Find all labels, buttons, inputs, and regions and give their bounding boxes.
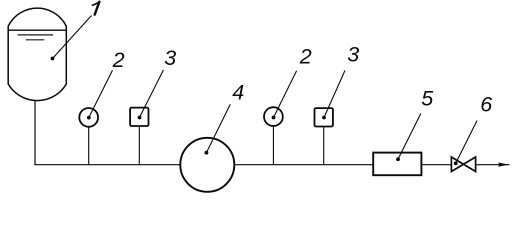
gauge 2 (right pressure gauge circle) [272, 126, 274, 164]
label 1 [92, 2, 100, 6]
leader dot 1 [51, 57, 55, 61]
svg-text:4: 4 [232, 81, 244, 105]
wire: tank outlet vertical pipe [34, 101, 36, 165]
filter 5 (rectangle) [373, 153, 421, 176]
tank level mark lower [26, 39, 45, 41]
leader line for right label 3 [324, 70, 345, 117]
leader line for label 1 [53, 16, 92, 59]
wire: outlet pipe with flow arrow [476, 164, 509, 166]
svg-text:2: 2 [299, 44, 312, 68]
leader line for label 4 [206, 104, 230, 153]
svg-text:6: 6 [480, 92, 492, 116]
gauge 2 (left pressure gauge circle) [88, 127, 90, 164]
tank level mark upper [18, 34, 54, 36]
leader dot left 2 [87, 116, 91, 120]
sensor 3 (right square instrument) [323, 127, 325, 165]
svg-text:3: 3 [347, 42, 359, 66]
valve 6 (bowtie symbol) [451, 157, 475, 172]
arrowhead flow direction [498, 163, 508, 167]
sensor 3 (left square instrument) [138, 127, 140, 165]
leader dot 6 [454, 161, 458, 165]
leader dot right 3 [322, 116, 326, 120]
svg-text:5: 5 [421, 86, 434, 110]
leader line for label 6 [456, 121, 477, 164]
leader line for left label 2 [89, 70, 113, 117]
svg-text:3: 3 [164, 46, 176, 70]
leader dot left 3 [138, 116, 142, 120]
leader line for label 5 [398, 113, 421, 159]
wire: main pipe tank to pump [34, 164, 179, 166]
wire: main pipe filter to valve [422, 164, 450, 166]
svg-text:2: 2 [112, 48, 125, 72]
tank liquid surface line [8, 29, 66, 31]
leader line for right label 2 [274, 71, 297, 118]
pump 4 (large circle) [180, 138, 234, 192]
wire: main pipe pump to filter [235, 164, 372, 166]
leader dot 4 [205, 151, 209, 155]
leader dot 5 [396, 157, 400, 161]
leader dot right 2 [272, 116, 276, 120]
tank 1 (vessel with domed top and dished bottom) [8, 8, 66, 100]
leader line for left label 3 [140, 70, 164, 118]
